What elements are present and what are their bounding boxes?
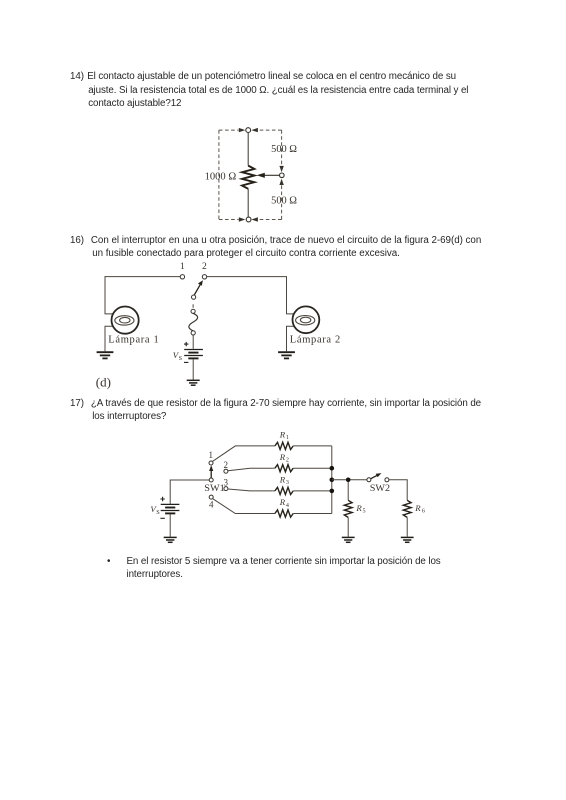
svg-text:(d): (d) (96, 374, 111, 389)
dashed boundary right edge with arrows toward wiper terminal (279, 130, 283, 219)
svg-text:1: 1 (286, 435, 289, 441)
wire top terminal to resistor (247, 133, 249, 166)
junction for R5 (346, 478, 351, 483)
ground under R6 (401, 537, 414, 542)
wire R3 to bus (293, 490, 332, 492)
item 16 text (70, 234, 84, 248)
wire SW2 to R6 (389, 480, 407, 501)
SW1 throw node 3 (224, 487, 228, 491)
battery VS (184, 350, 203, 359)
junction mid (330, 478, 335, 483)
node terminal 2 (202, 275, 206, 279)
resistor R6 (403, 500, 411, 517)
wire R2 left stub (273, 467, 275, 469)
svg-text:SW2: SW2 (370, 483, 391, 493)
svg-text:S: S (156, 509, 160, 516)
node: bottom terminal (246, 217, 251, 222)
wire throw4 to R4 (213, 499, 275, 514)
battery VS (161, 504, 180, 513)
svg-text:S: S (179, 355, 183, 362)
switch blade with arrowhead (194, 280, 203, 295)
svg-text:3: 3 (286, 480, 289, 486)
resistor R5 (344, 500, 352, 517)
svg-text:R: R (279, 452, 286, 462)
node: wiper terminal (280, 173, 285, 178)
svg-text:SW1: SW1 (204, 483, 225, 493)
wire fuse to battery (192, 335, 194, 349)
svg-text:500 Ω: 500 Ω (271, 195, 297, 206)
resistor R4 (275, 510, 293, 517)
wire throw2 to R2 (228, 468, 273, 471)
SW1 pole node (209, 478, 213, 482)
svg-text:1000 Ω: 1000 Ω (205, 172, 237, 183)
item 17 text (70, 397, 84, 411)
item 14 text (70, 70, 84, 84)
wire junction to R5 (347, 482, 349, 500)
SW1 throw node 1 (209, 461, 213, 465)
junction at R3 level (330, 489, 335, 494)
SW1 throw node 4 (209, 495, 213, 499)
wire right branch down to lamp 2 (287, 276, 295, 314)
dashed boundary left edge (218, 130, 220, 219)
node: top terminal (246, 128, 251, 133)
lamp Lampara 2 (293, 306, 320, 333)
potentiometer resistor 1000 ohm zigzag (242, 166, 254, 189)
plus sign (160, 497, 164, 501)
wire bus to SW2 (332, 479, 367, 481)
resistor R3 (275, 487, 293, 494)
wiper arrow (257, 173, 280, 178)
svg-text:2: 2 (202, 262, 207, 272)
lamp Lampara 1 (112, 307, 139, 334)
svg-text:4: 4 (286, 503, 289, 509)
svg-text:4: 4 (209, 500, 214, 510)
svg-text:R: R (279, 475, 286, 485)
SW2 blade arrow (371, 473, 382, 479)
svg-text:5: 5 (363, 509, 366, 515)
wire R6 to ground (406, 517, 408, 536)
minus sign (184, 361, 188, 363)
label R5 (355, 503, 365, 515)
wire lamp 2 to ground (287, 326, 295, 351)
bullet answer text (107, 555, 110, 569)
wire throw1 to R1 (213, 446, 275, 462)
ground under R5 (342, 537, 355, 542)
svg-text:500 Ω: 500 Ω (271, 144, 297, 155)
wire R5 to ground (347, 517, 349, 536)
svg-text:R: R (414, 503, 421, 513)
label R1 (279, 430, 289, 442)
minus sign (160, 517, 164, 519)
svg-text:R: R (279, 497, 286, 507)
svg-text:2: 2 (224, 460, 229, 470)
wire battery to ground (192, 359, 194, 379)
SW1 blade arrow (209, 465, 213, 478)
wire R3 left stub (273, 490, 275, 492)
wire R2 to bus (293, 467, 332, 469)
wire R4 to bus (293, 513, 332, 515)
label R4 (279, 497, 289, 509)
bus vertical wire (331, 446, 333, 514)
dashed boundary bottom edge with arrows toward bottom terminal (219, 217, 282, 221)
svg-text:2: 2 (286, 458, 289, 464)
label R3 (279, 475, 289, 487)
wire resistor to bottom terminal (247, 189, 249, 217)
svg-text:1: 1 (209, 450, 214, 460)
plus sign (184, 342, 188, 346)
SW2 right node (385, 478, 389, 482)
SW1 throw node 2 (224, 469, 228, 473)
wire R1 to bus (293, 445, 332, 447)
wire top right (207, 276, 287, 278)
wire battery to ground (169, 514, 171, 537)
ground under lamp 2 (278, 352, 295, 358)
fuse top node (191, 309, 195, 313)
svg-text:Lámpara 2: Lámpara 2 (290, 334, 341, 345)
label R6 (414, 503, 425, 515)
svg-text:R: R (279, 430, 286, 440)
wire left branch down to lamp (105, 276, 114, 314)
ground under lamp 1 (97, 352, 114, 358)
tick between switch and fuse (192, 304, 194, 307)
svg-text:Lámpara 1: Lámpara 1 (108, 334, 159, 345)
wire battery up to SW1 pole (170, 480, 209, 504)
SW2 left node (367, 478, 371, 482)
wire lamp to ground (105, 326, 114, 351)
ground under battery (164, 537, 177, 542)
switch pivot node (192, 295, 196, 299)
svg-text:6: 6 (422, 509, 425, 515)
wire top left (105, 276, 180, 278)
fuse bottom node (191, 331, 195, 335)
fuse S-curve element (189, 313, 198, 331)
svg-text:R: R (355, 503, 362, 513)
label R2 (279, 452, 289, 464)
wire throw3 to R3 (228, 489, 273, 491)
node terminal 1 (180, 275, 184, 279)
svg-text:1: 1 (180, 262, 185, 272)
resistor R1 (275, 442, 293, 449)
junction at R2 level (330, 466, 335, 471)
ground under battery (187, 380, 200, 385)
resistor R2 (275, 465, 293, 472)
dashed boundary top edge with arrows toward top terminal (219, 128, 282, 132)
